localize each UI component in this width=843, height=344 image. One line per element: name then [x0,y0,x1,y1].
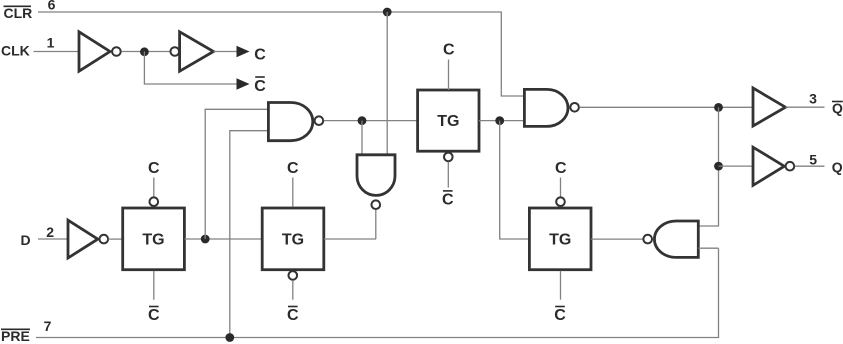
wire C stub TG1 [153,178,155,197]
transmission gate TG2 box [262,208,324,270]
svg-text:C: C [554,307,566,324]
svg-text:Q: Q [832,159,843,175]
svg-text:1: 1 [47,34,55,50]
inverter U3 triangle [68,220,98,258]
wire G2 out down to TG2 out net [375,210,377,239]
wire U3 out to TG1 [108,238,122,240]
NAND G3 output bubble [570,103,579,112]
wire TG2 out joins NAND2 out [324,238,376,240]
node PRE junction [225,333,234,342]
NAND gate G2 body (vertical) [357,155,395,196]
label Cbar below TG3 [442,191,454,209]
wire PRE bus to G4 input B [36,248,719,337]
node G1 output junction [358,116,367,125]
bubble TG4 top [556,197,565,206]
arrow to net Cbar [237,78,250,90]
net Cbar label (clock) [254,77,266,95]
wire TG3 node down to TG4 input [500,121,530,239]
junction CLR to NAND2 [383,8,392,17]
inverter U5 output bubble [786,162,795,171]
wire D input [38,238,68,240]
buffer U2 triangle [180,32,214,71]
wire G1 node down to NAND2 input A [361,121,363,155]
wire junction down to arrow Cbar [144,52,236,85]
node TG1 output junction [201,235,210,244]
inverter U3 output bubble [100,235,109,244]
label Cbar below TG4 [554,307,566,324]
NAND gate G4 body (mirrored, points left) [654,221,698,257]
svg-text:C: C [254,78,266,95]
inverter U5 triangle (Q) [753,147,784,185]
bubble TG3 bottom [444,153,453,162]
svg-text:2: 2 [46,224,54,240]
bubble TG1 top [150,197,159,206]
transmission gate TG3 box [418,90,479,151]
svg-text:C: C [287,307,299,324]
svg-text:C: C [443,41,455,58]
NAND G1 output bubble [315,116,324,125]
inverter U1 triangle [79,32,110,71]
wire U4 out to pin 3 [786,106,825,108]
buffer U2 input bubble [171,47,180,56]
wire Cbar stub TG2 [292,280,294,300]
bubble TG2 bottom [289,271,298,280]
wire TG1 node up to NAND1 input A [205,109,268,239]
svg-text:D: D [21,232,31,248]
inverter U1 output bubble [112,47,121,56]
wire Cbar stub TG3 [447,162,449,188]
svg-text:C: C [287,160,299,177]
svg-text:CLR: CLR [4,5,33,21]
node CLK-inverted junction [140,47,149,56]
wire Cbar stub TG4 [560,271,562,300]
NAND gate G1 body [268,103,312,141]
svg-text:C: C [555,160,567,177]
wire G1 out to TG3 [324,120,418,122]
wire G3 out to output buffers [580,106,753,108]
svg-text:6: 6 [48,0,56,12]
node Qbar buffer junction [714,103,723,112]
wire C stub TG2 [292,178,294,207]
svg-text:TG: TG [282,232,304,249]
svg-text:3: 3 [809,90,817,106]
label Cbar below TG1 [148,307,160,324]
NAND G4 output bubble [643,235,652,244]
svg-text:C: C [148,307,160,324]
node Q inverter junction [714,162,723,171]
svg-text:5: 5 [809,151,817,167]
wire CLK input [34,51,80,53]
svg-text:PRE: PRE [1,328,30,344]
svg-text:CLK: CLK [1,43,30,59]
wire TG4 out to G4 output bubble [591,238,643,240]
net PRE label [1,328,30,344]
wire U2 out to arrow C [214,51,237,53]
wire TG1 out to TG2 [184,238,262,240]
wire Q node to inverter U5 [719,165,754,167]
wire TG3 out to NAND3 input B [479,120,524,122]
net CLR label [4,5,33,21]
svg-text:7: 7 [44,318,52,334]
wire U1 out to U2 in [121,51,170,53]
wire Q node vertical down to G4 input A [698,107,718,226]
wire C stub TG4 [560,178,562,197]
svg-text:C: C [254,47,266,64]
wire C stub TG3 [448,60,450,91]
node TG3 output junction [495,116,504,125]
NAND G2 output bubble [372,200,381,209]
svg-text:C: C [442,191,454,208]
svg-text:TG: TG [437,113,459,130]
transmission gate TG1 box [123,208,185,270]
wire G4 input B from PRE [698,247,718,249]
svg-text:Q: Q [832,100,843,116]
label Cbar below TG2 [287,307,299,324]
svg-text:C: C [148,160,160,177]
transmission gate TG4 box [529,208,591,270]
svg-text:TG: TG [142,232,164,249]
buffer U4 triangle (Qbar) [753,88,786,126]
svg-text:TG: TG [549,232,571,249]
wire U5 out to pin 5 [795,165,825,167]
net Qbar label [832,100,843,116]
wire CLR junction down to NAND2 input B [386,12,388,155]
wire Cbar stub TG1 [153,271,155,300]
arrow to net C [237,46,250,58]
NAND gate G3 body [524,89,568,126]
wire CLR bus to NAND3 input A [38,12,524,96]
wire PRE to NAND1 input B [230,131,269,338]
